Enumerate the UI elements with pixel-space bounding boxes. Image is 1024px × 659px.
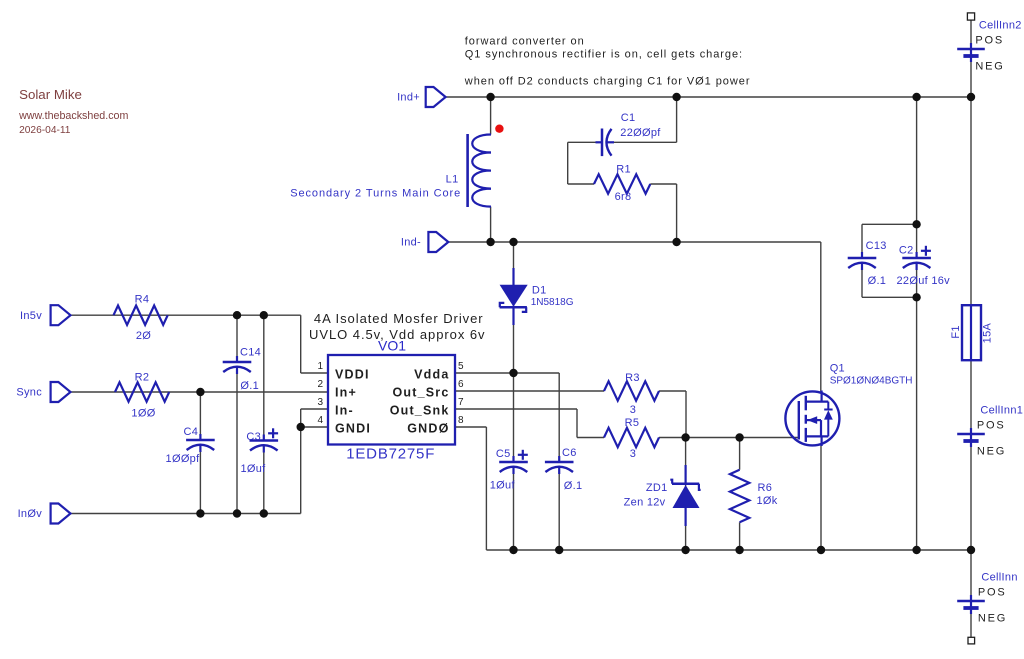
- inductor L1: [290, 134, 491, 207]
- node In0v-C3: [260, 509, 268, 517]
- capacitor C4: [166, 426, 215, 465]
- node top-cells: [967, 93, 975, 101]
- polarity dot L1: [495, 125, 503, 133]
- svg-text:2: 2: [317, 379, 323, 390]
- wire battery string mid: [970, 360, 972, 637]
- svg-text:In-: In-: [335, 404, 354, 418]
- svg-text:Ind+: Ind+: [397, 92, 420, 104]
- svg-text:In5v: In5v: [20, 310, 42, 322]
- wire R3 right to node: [659, 391, 686, 438]
- svg-text:1EDB7275F: 1EDB7275F: [346, 445, 435, 462]
- wire L1 bottom lead: [490, 207, 492, 242]
- svg-text:C4: C4: [183, 426, 198, 438]
- node gnd-R6: [735, 546, 743, 554]
- svg-text:C13: C13: [866, 240, 887, 252]
- svg-text:2Ø: 2Ø: [136, 330, 151, 342]
- svg-text:UVLO 4.5v, Vdd approx 6v: UVLO 4.5v, Vdd approx 6v: [309, 327, 485, 342]
- node gnd-C5: [509, 546, 517, 554]
- svg-text:C14: C14: [240, 346, 261, 358]
- svg-text:www.thebackshed.com: www.thebackshed.com: [18, 110, 128, 122]
- resistor R6: [730, 470, 778, 523]
- svg-text:CellInn1: CellInn1: [980, 405, 1023, 417]
- wire C3 column: [263, 315, 265, 513]
- resistor R3: [604, 372, 659, 416]
- resistor R4: [114, 294, 168, 343]
- node gnd-cells: [967, 546, 975, 554]
- svg-text:2026-04-11: 2026-04-11: [19, 125, 71, 136]
- svg-text:forward converter on: forward converter on: [465, 36, 585, 48]
- wire C14 column: [236, 315, 238, 513]
- svg-text:3: 3: [630, 448, 636, 460]
- svg-text:GNDI: GNDI: [335, 422, 371, 436]
- wire Vdda pin5 line: [455, 373, 559, 550]
- note line 1: [465, 36, 585, 48]
- svg-text:R5: R5: [625, 417, 640, 429]
- capacitor C14: [223, 346, 261, 392]
- svg-text:Ø.1: Ø.1: [240, 380, 259, 392]
- node gnd-Q1: [817, 546, 825, 554]
- port In0v: [18, 504, 71, 524]
- title date: [19, 125, 71, 136]
- capacitor C3: [240, 428, 278, 475]
- svg-text:D1: D1: [532, 285, 547, 297]
- port In5v: [20, 305, 71, 325]
- wire R6 column: [739, 438, 741, 551]
- zener diode ZD1: [624, 465, 701, 526]
- battery cell CellInn: [957, 571, 1018, 624]
- capacitor C1: [596, 112, 662, 156]
- svg-text:POS: POS: [977, 420, 1006, 432]
- svg-text:3: 3: [630, 404, 636, 416]
- node GNDI pin4: [297, 423, 305, 431]
- wire L1 top lead: [490, 97, 492, 135]
- node gnd-ZD1: [681, 546, 689, 554]
- wire In5v line: [71, 315, 329, 373]
- svg-text:4: 4: [317, 415, 323, 426]
- svg-text:NEG: NEG: [978, 613, 1007, 625]
- svg-text:Vdda: Vdda: [414, 368, 449, 382]
- wire R1 right leg: [650, 184, 676, 242]
- wire Sync line to pin 2: [71, 391, 329, 393]
- wire C13 bracket: [862, 224, 917, 297]
- capacitor C13: [848, 240, 887, 287]
- svg-text:L1: L1: [446, 173, 459, 185]
- terminal square top: [967, 13, 974, 20]
- svg-text:R2: R2: [135, 372, 150, 384]
- wire battery string top: [970, 20, 972, 305]
- resistor R2: [115, 372, 169, 420]
- port Sync: [16, 382, 70, 402]
- node gnd-C2col: [912, 546, 920, 554]
- capacitor C5: [490, 448, 528, 492]
- terminal square bottom: [968, 637, 975, 644]
- node gate-R6: [735, 433, 743, 441]
- svg-text:5: 5: [458, 361, 464, 372]
- note line 3: [464, 76, 751, 88]
- wire C13 C2 column: [916, 97, 918, 550]
- wire pin8 to ground rail: [455, 427, 486, 550]
- svg-text:Q1: Q1: [830, 363, 845, 375]
- svg-text:C3: C3: [246, 431, 261, 443]
- note driver line 2: [309, 327, 485, 342]
- wire In0v rail: [71, 409, 329, 514]
- node In5v-C14: [233, 311, 241, 319]
- note line 2: [465, 49, 743, 61]
- wire Ind- rail to Q1 drain: [448, 242, 821, 392]
- svg-text:InØv: InØv: [18, 508, 43, 520]
- wire pin7 to R5: [455, 409, 604, 438]
- svg-text:Q1 synchronous rectifier is on: Q1 synchronous rectifier is on, cell get…: [465, 49, 743, 61]
- svg-text:Ø.1: Ø.1: [868, 275, 887, 287]
- svg-text:POS: POS: [978, 587, 1007, 599]
- node Ind--R1: [672, 238, 680, 246]
- capacitor C2: [897, 244, 951, 287]
- svg-text:15A: 15A: [981, 323, 993, 344]
- svg-text:1Øuf: 1Øuf: [240, 463, 266, 475]
- svg-text:22ØØpf: 22ØØpf: [620, 127, 661, 139]
- battery cell CellInn2: [957, 20, 1021, 73]
- svg-text:1Øk: 1Øk: [757, 495, 778, 507]
- svg-text:R1: R1: [616, 164, 631, 176]
- wire C1 right leg: [608, 97, 677, 142]
- svg-text:22Øuf 16v: 22Øuf 16v: [897, 275, 951, 287]
- node In0v-C4: [196, 509, 204, 517]
- svg-text:Secondary 2 Turns Main Core: Secondary 2 Turns Main Core: [290, 188, 461, 200]
- node C13 top: [912, 220, 920, 228]
- svg-text:Zen 12v: Zen 12v: [624, 497, 666, 509]
- node gnd-C6: [555, 546, 563, 554]
- resistor R5: [604, 417, 659, 460]
- svg-text:CellInn2: CellInn2: [979, 20, 1022, 32]
- svg-text:C2: C2: [899, 244, 914, 256]
- node gate-ZD1: [681, 433, 689, 441]
- svg-text:6r8: 6r8: [615, 191, 632, 203]
- svg-text:8: 8: [458, 415, 464, 426]
- svg-text:R6: R6: [758, 482, 773, 494]
- svg-text:POS: POS: [975, 35, 1004, 47]
- svg-text:VDDI: VDDI: [335, 368, 370, 382]
- svg-text:R3: R3: [625, 372, 640, 384]
- node Ind--D1: [509, 238, 517, 246]
- node Vdda-D1-C5: [509, 369, 517, 377]
- svg-text:CellInn: CellInn: [981, 571, 1017, 583]
- battery cell CellInn1: [957, 405, 1023, 458]
- svg-text:3: 3: [317, 397, 323, 408]
- wire bottom ground rail: [486, 549, 971, 551]
- wire top rail Ind+: [446, 96, 971, 98]
- node top-C2col: [912, 93, 920, 101]
- svg-text:Ind-: Ind-: [401, 237, 421, 249]
- svg-text:NEG: NEG: [977, 446, 1006, 458]
- svg-text:Solar Mike: Solar Mike: [19, 87, 82, 102]
- port Ind+: [397, 87, 446, 107]
- svg-text:1ØØpf: 1ØØpf: [166, 453, 201, 465]
- wire C5 column: [513, 373, 515, 550]
- node Ind--L1: [486, 238, 494, 246]
- svg-text:SPØ1ØNØ4BGTH: SPØ1ØNØ4BGTH: [830, 375, 913, 386]
- svg-text:ZD1: ZD1: [646, 482, 668, 494]
- diode D1: [500, 268, 574, 325]
- svg-text:1N5818G: 1N5818G: [531, 297, 574, 308]
- wire C1 left to R1: [568, 142, 602, 184]
- op-amp U1 gate driver 1EDB7275F: [317, 338, 464, 463]
- fuse F1: [950, 305, 993, 360]
- svg-text:Sync: Sync: [16, 387, 42, 399]
- svg-text:Out_Src: Out_Src: [392, 386, 449, 400]
- svg-text:NEG: NEG: [975, 61, 1004, 73]
- svg-text:1ØØ: 1ØØ: [131, 408, 155, 420]
- wire ZD1 column: [685, 438, 687, 551]
- svg-text:F1: F1: [950, 325, 962, 338]
- svg-text:7: 7: [458, 397, 464, 408]
- capacitor C6: [545, 447, 583, 492]
- svg-text:6: 6: [458, 379, 464, 390]
- wire C4 column: [199, 392, 201, 514]
- port Ind-: [401, 232, 448, 252]
- node Sync-C4: [196, 388, 204, 396]
- svg-text:1Øuf: 1Øuf: [490, 480, 516, 492]
- wire Q1 source lead: [820, 445, 822, 550]
- node In5v-C3: [260, 311, 268, 319]
- svg-text:In+: In+: [335, 386, 357, 400]
- wire pin6 to R3: [455, 390, 604, 392]
- svg-text:C6: C6: [562, 447, 577, 459]
- node top-C1: [672, 93, 680, 101]
- svg-text:1: 1: [317, 361, 323, 372]
- svg-text:Ø.1: Ø.1: [564, 480, 583, 492]
- svg-text:when off D2 conducts charging: when off D2 conducts charging C1 for VØ1…: [464, 76, 751, 88]
- svg-text:4A Isolated Mosfer Driver: 4A Isolated Mosfer Driver: [314, 311, 484, 326]
- svg-text:R4: R4: [135, 294, 150, 306]
- note driver line 1: [314, 311, 484, 326]
- wire R5 node to Q1 gate: [659, 437, 799, 439]
- title Solar Mike: [19, 87, 82, 102]
- node In0v-C14: [233, 509, 241, 517]
- transistor Q1: [785, 363, 912, 447]
- svg-text:GNDØ: GNDØ: [407, 422, 449, 436]
- title url: [18, 110, 128, 122]
- node top-L1: [486, 93, 494, 101]
- svg-text:C5: C5: [496, 448, 511, 460]
- svg-text:C1: C1: [621, 112, 636, 124]
- resistor R1: [594, 164, 650, 204]
- node C13 bottom: [912, 293, 920, 301]
- wire D1 column: [513, 242, 515, 373]
- svg-text:Out_Snk: Out_Snk: [390, 404, 450, 418]
